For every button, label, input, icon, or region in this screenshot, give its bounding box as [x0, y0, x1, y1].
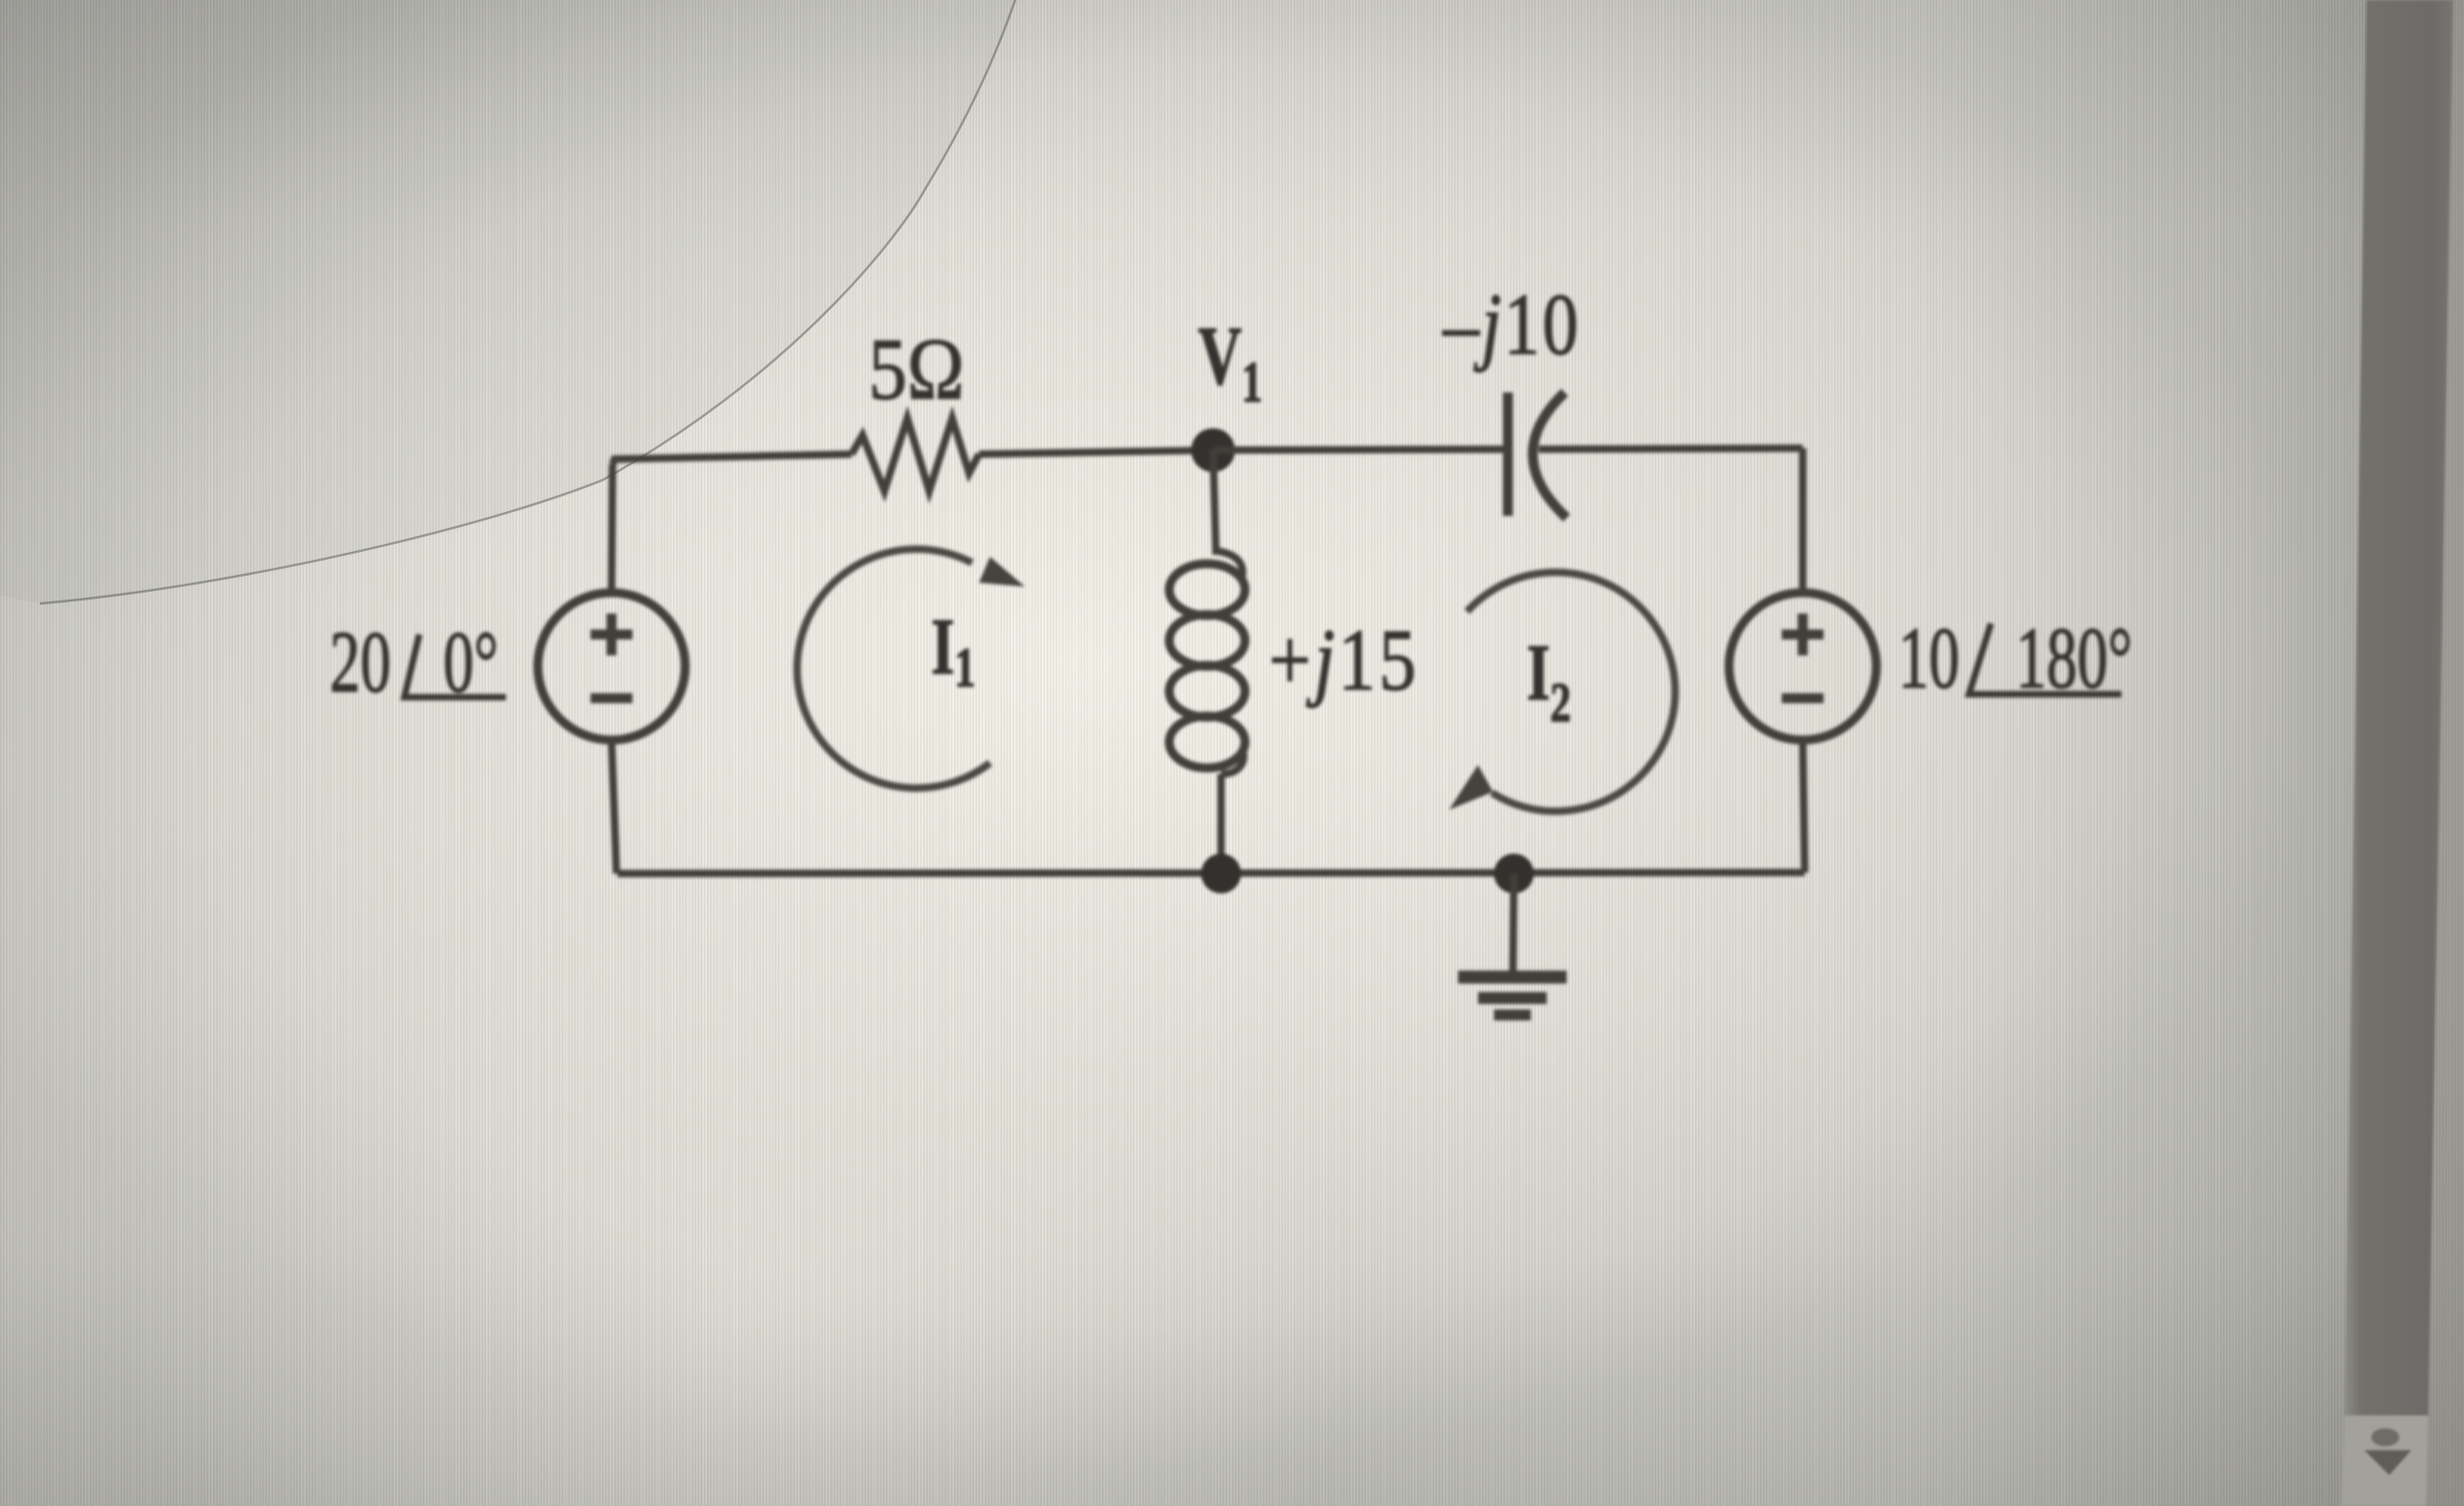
label 20 angle 0deg : text 0deg [443, 614, 498, 710]
label -j10 [1442, 276, 1581, 373]
wire source Vs2 to bottom wire [1803, 740, 1805, 873]
scrollbar gutter shade [2420, 0, 2464, 1506]
inductor L +j15 loop 2 [1169, 615, 1245, 666]
inductor L +j15 coil bottom hook [1221, 751, 1244, 774]
label 10 angle 180deg : text 180deg [2016, 610, 2132, 706]
wire top-left corner to resistor [613, 454, 852, 464]
wire node V1 down to inductor [1213, 450, 1216, 555]
scrollbar down-arrow icon triangle [2364, 1450, 2411, 1475]
scrollbar thumb [2344, 0, 2453, 1415]
wire inductor to bottom node [1217, 774, 1225, 874]
resistor R 5ohm [852, 418, 979, 491]
label 5 ohm [868, 320, 964, 417]
source Vs1 minus [591, 693, 632, 703]
ground bar 2 [1478, 992, 1547, 1004]
source Vs2 minus [1782, 693, 1824, 703]
label 20 angle 0deg : angle symbol [404, 634, 506, 697]
label 10 angle 180deg : angle symbol [1969, 624, 2121, 694]
source Vs2 circle 10/180 [1729, 593, 1876, 740]
wire left vertical top [612, 464, 613, 594]
bottom wire [617, 873, 1805, 874]
ground bar 3 [1494, 1010, 1531, 1021]
bottom node dot (ground) [1494, 854, 1534, 893]
inductor L +j15 loop 3 [1169, 665, 1245, 717]
wire source Vs1 to bottom wire [612, 740, 616, 874]
source Vs2 plus [1782, 614, 1824, 655]
wire node V1 to capacitor [1213, 449, 1508, 450]
bottom node dot (inductor) [1201, 854, 1241, 893]
capacitor C -j10 right curved plate [1533, 392, 1567, 518]
ground bar 1 [1458, 971, 1567, 984]
inductor L +j15 loop 1 [1169, 564, 1245, 616]
label 20 angle 0deg : text 20 [330, 614, 391, 710]
inductor L +j15 loop 4 [1169, 716, 1245, 768]
scrollbar below-thumb track [2341, 1415, 2428, 1506]
mesh current I2 arrowhead [1449, 765, 1493, 810]
label V1 [1198, 309, 1263, 413]
mesh current I1 loop arc [797, 549, 990, 788]
wire capacitor to top-right corner [1539, 448, 1803, 449]
mesh current I2 loop arc [1467, 572, 1675, 811]
label I2 [1527, 629, 1571, 734]
wire resistor to node V1 [979, 450, 1213, 454]
mesh current I1 arrowhead [979, 557, 1025, 587]
wire right vertical to source [1799, 448, 1807, 594]
ground stem [1513, 874, 1514, 971]
label 10 angle 180deg : text 10 [1898, 610, 1960, 706]
label +j15 [1269, 611, 1419, 708]
source Vs1 circle 20/0 [538, 593, 685, 740]
capacitor C -j10 left plate [1503, 392, 1513, 516]
source Vs1 plus [591, 614, 632, 655]
label I1 [931, 604, 975, 699]
node V1 dot [1191, 428, 1235, 472]
scrollbar down-arrow icon knob [2371, 1428, 2399, 1446]
inductor L +j15 coil top hook [1216, 551, 1243, 578]
